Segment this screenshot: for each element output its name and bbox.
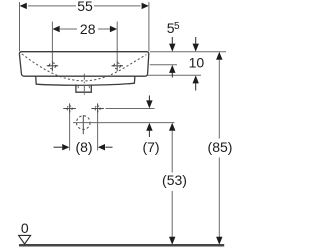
datum triangle (19, 235, 31, 244)
apron (lower body) (36, 76, 135, 85)
dim (85): line lower part (218, 158, 220, 238)
dim (8): right outside arrow (98, 144, 105, 150)
drain centerline (83, 74, 85, 97)
svg-text:0: 0 (21, 220, 29, 236)
svg-text:(8): (8) (75, 139, 92, 155)
dim 55: left arrow (20, 3, 27, 9)
tap hole right: cross (112, 60, 123, 71)
svg-text:(85): (85) (208, 139, 233, 155)
tap deck extension line (line B) (150, 64, 177, 66)
rim top extension line (line A) (150, 51, 226, 53)
dim (53): line upper part (171, 130, 173, 172)
svg-text:(7): (7) (142, 139, 159, 155)
svg-text:(53): (53) (162, 172, 187, 188)
svg-text:5: 5 (174, 21, 180, 32)
dim 55: right arrow (142, 3, 149, 9)
fixing hole right: cross (91, 103, 104, 113)
rim bottom extension line (line C) (148, 74, 201, 76)
dim 55: left extension line (19, 2, 21, 51)
dim (53): top arrow (169, 123, 175, 131)
dim (85): top arrow (216, 52, 222, 60)
svg-text:55: 55 (77, 0, 93, 14)
trap box inner dashes (77, 86, 79, 89)
fixing hole left: cross (63, 103, 76, 113)
drain outlet dashed circle (77, 116, 91, 130)
basin interior dashed bowl curve (22, 54, 147, 81)
dim 10: top arrow (195, 37, 197, 44)
dim (8): left outside arrow (54, 146, 63, 148)
dim 28: right arrow (110, 26, 117, 32)
fixing hole reference line (106, 108, 155, 110)
dim 10: bottom arrow (193, 75, 199, 83)
dim (85): line upper part (218, 59, 220, 138)
dim (53): bottom arrow (169, 237, 175, 245)
dim (85): bottom arrow (216, 237, 222, 245)
dim 5.5: top arrow (171, 37, 173, 44)
dim 5.5: bottom arrow (169, 65, 175, 73)
dim 55: dimension line (28, 5, 76, 7)
svg-text:28: 28 (80, 21, 96, 37)
dim 28: right extension line (116, 22, 118, 61)
dim (7): bottom arrow (146, 123, 152, 131)
dim 55: right extension line (148, 2, 150, 51)
drain outlet horizontal reference line (73, 122, 175, 124)
dim 28: left extension line (51, 22, 53, 61)
trap cover box (76, 84, 91, 92)
tap hole left: cross (47, 60, 58, 71)
svg-text:10: 10 (189, 55, 205, 71)
drain outlet vertical centerline (82, 115, 84, 134)
dim (7): top arrow (148, 96, 150, 102)
dim (8): right extension line (97, 114, 99, 151)
dim (53): line lower part (171, 191, 173, 237)
dim 28: dimension line (60, 28, 77, 30)
floor line (19, 244, 224, 247)
dim (8): left extension line (69, 114, 71, 151)
washbasin body outline (19, 52, 148, 76)
dim 28: left arrow (53, 26, 60, 32)
